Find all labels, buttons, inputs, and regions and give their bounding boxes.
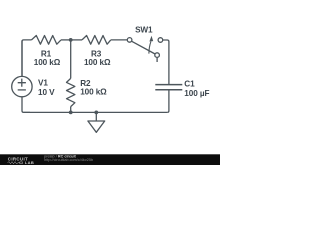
- wire V1 bottom to rail corner: [22, 97, 30, 113]
- footer bar: [0, 154, 220, 165]
- wire R1 to node: [61, 39, 71, 41]
- SW1 lower throw open stub: [156, 58, 158, 63]
- voltage source V1: [12, 76, 32, 96]
- CircuitLab logo box: [20, 162, 23, 164]
- capacitor C1 top plate: [155, 84, 182, 86]
- V1 plus sign: [18, 79, 26, 87]
- SW1 actuator arrow shaft: [149, 42, 151, 54]
- svg-text:LAB: LAB: [25, 160, 34, 165]
- resistor R3: [82, 36, 111, 45]
- svg-text:C1: C1: [184, 79, 195, 88]
- svg-text:10 V: 10 V: [38, 88, 55, 97]
- svg-text:V1: V1: [38, 79, 48, 88]
- node dot ground: [94, 111, 98, 115]
- svg-text:100 kΩ: 100 kΩ: [84, 58, 111, 67]
- switch SW1 blade: [132, 41, 156, 54]
- wire R3 to switch pole: [111, 39, 128, 41]
- resistor R2: [67, 78, 75, 106]
- svg-text:http://circuitlab.com/c/4kv25b: http://circuitlab.com/c/4kv25b: [44, 158, 93, 162]
- svg-text:SW1: SW1: [135, 26, 153, 35]
- wire node to R3: [71, 39, 82, 41]
- svg-text:100 µF: 100 µF: [184, 89, 209, 98]
- resistor R1: [32, 36, 62, 45]
- SW1 lower throw terminal circle: [155, 53, 160, 58]
- node dot top (R1/R3/R2 junction): [69, 38, 73, 42]
- node dot bottom R2: [69, 111, 73, 115]
- wire R2 to bottom rail: [70, 107, 72, 113]
- wire node down to R2: [70, 40, 72, 79]
- wire bottom rail: [24, 111, 168, 113]
- wire top-left corner and left rail: [22, 40, 32, 77]
- CircuitLab logo resistor squiggle: [8, 162, 21, 164]
- wire C1 bottom corner: [167, 90, 169, 112]
- wire V1 top stub: [21, 41, 23, 77]
- SW1 pole terminal circle: [127, 38, 132, 43]
- svg-text:100 kΩ: 100 kΩ: [80, 87, 107, 96]
- capacitor C1 bottom plate: [155, 89, 182, 91]
- wire upper throw to C1: [163, 40, 169, 84]
- svg-text:100 kΩ: 100 kΩ: [34, 58, 61, 67]
- SW1 arrow head: [149, 36, 153, 42]
- SW1 upper throw terminal circle: [158, 38, 163, 43]
- V1 minus sign: [18, 89, 26, 91]
- ground: [88, 121, 105, 132]
- wire ground stub: [95, 112, 97, 121]
